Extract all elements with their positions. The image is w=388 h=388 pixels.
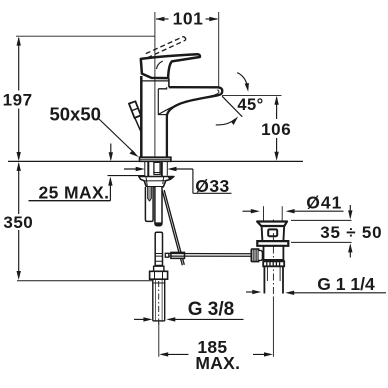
neck left edge bbox=[141, 78, 143, 84]
dimension 185 extension line left bbox=[158, 323, 160, 357]
pull rod guide bbox=[154, 162, 160, 172]
rod clamp bbox=[171, 252, 185, 258]
dimension O41 extension lines bbox=[263, 206, 265, 221]
drain lower nut band bbox=[263, 261, 284, 266]
counter underside line bbox=[108, 175, 145, 177]
countertop line bbox=[8, 160, 303, 162]
G 3/8 underline leader + arrows bbox=[134, 317, 244, 321]
dimension 106 line + arrows bbox=[274, 96, 278, 161]
G 1 1/4 underline leader + arrows bbox=[246, 290, 386, 295]
faucet handle raised dashed bbox=[146, 37, 186, 58]
svg-text:197: 197 bbox=[3, 91, 33, 110]
spout inner curve bbox=[159, 95, 216, 114]
rotation arc lower bbox=[216, 116, 238, 125]
hub inner curve bbox=[156, 61, 162, 69]
G38 pipe centerline bbox=[158, 281, 160, 327]
rotation arc upper bbox=[237, 73, 249, 92]
lower pipe collar bbox=[154, 266, 164, 271]
label O33 leader arrows bbox=[124, 167, 232, 194]
counter hole right edge bbox=[166, 162, 168, 176]
svg-text:Ø41: Ø41 bbox=[306, 192, 342, 212]
supply hose left bbox=[145, 187, 153, 221]
svg-text:G 3/8: G 3/8 bbox=[188, 299, 234, 320]
25 MAX underline bbox=[29, 200, 111, 202]
base flange bbox=[140, 157, 171, 161]
dimension 101 extension line left bbox=[154, 12, 156, 157]
svg-text:Ø33: Ø33 bbox=[195, 176, 230, 196]
column front shading line bbox=[157, 89, 159, 115]
faucet lever and hub bbox=[141, 54, 200, 78]
G38 pipe thread line bbox=[153, 282, 165, 284]
drain flange bbox=[257, 222, 287, 227]
horizontal rod end cap bbox=[165, 253, 169, 257]
drain knob cap bbox=[259, 250, 263, 260]
dimension 185 line + arrows bbox=[159, 352, 273, 356]
drain square hole bbox=[268, 229, 277, 236]
dimension 350 bottom extension line bbox=[17, 280, 153, 282]
spout body bbox=[167, 87, 222, 157]
supply hose left gray core bbox=[148, 187, 152, 201]
drain knurled knob bbox=[251, 249, 258, 262]
svg-text:G 1 1/4: G 1 1/4 bbox=[317, 274, 375, 294]
neck right edge bbox=[168, 78, 170, 87]
25 MAX leader up arrow bbox=[108, 177, 112, 201]
svg-text:25 MAX.: 25 MAX. bbox=[39, 183, 110, 203]
dimension 197 line + arrows bbox=[17, 37, 21, 161]
drain mid body bbox=[264, 246, 284, 261]
45 degree reference line bbox=[222, 96, 242, 117]
dimension 35-50 extension lines bbox=[291, 219, 352, 221]
svg-text:106: 106 bbox=[261, 120, 291, 139]
supply hose right bbox=[155, 187, 162, 226]
lower supply pipe bbox=[155, 232, 162, 271]
svg-text:101: 101 bbox=[173, 9, 204, 29]
dimension 101 line + arrows bbox=[155, 17, 218, 21]
svg-text:350: 350 bbox=[3, 213, 33, 232]
drain centerline bbox=[272, 220, 274, 298]
dimension 35-50 arrows bbox=[348, 205, 352, 258]
drain upper body bbox=[262, 226, 285, 241]
supply hose right end cap bbox=[155, 222, 162, 225]
dimension 106 extension line bbox=[222, 94, 282, 96]
dimension O41 line + arrows bbox=[243, 209, 344, 213]
threaded shank bbox=[148, 162, 162, 177]
faucet handle raised tip bbox=[184, 37, 186, 41]
faucet column left edge bbox=[140, 76, 143, 157]
spout notch tick bbox=[158, 114, 167, 116]
spout tip inner arc bbox=[215, 90, 219, 95]
counter hole left edge bbox=[144, 162, 146, 176]
dimension 101 extension line right bbox=[218, 12, 220, 88]
drain collar bbox=[257, 241, 288, 246]
spout ledge bbox=[158, 87, 166, 89]
wing nut details bbox=[144, 177, 166, 187]
base flange inner line bbox=[140, 158, 171, 160]
dimension 350 line + arrows bbox=[17, 162, 21, 280]
svg-text:45°: 45° bbox=[237, 96, 263, 114]
hub bottom step bbox=[142, 80, 169, 82]
lower pipe division lines bbox=[155, 254, 162, 266]
pop-up transfer rod bbox=[162, 190, 184, 265]
pop-up rod knob bbox=[129, 101, 141, 118]
horizontal pop-up rod bbox=[169, 254, 252, 257]
mounting wing nut bbox=[139, 177, 174, 187]
dimension 197 top extension line bbox=[16, 35, 155, 37]
G38 threaded pipe bbox=[153, 279, 165, 321]
leader 50x50 bbox=[99, 119, 139, 157]
drain tailpipe bbox=[264, 267, 283, 294]
dimension 185 extension line right bbox=[272, 297, 274, 357]
svg-text:50x50: 50x50 bbox=[49, 104, 100, 125]
25 MAX down arrow bbox=[109, 144, 113, 162]
G38 hex fitting bbox=[150, 271, 168, 279]
svg-text:35 ÷ 50: 35 ÷ 50 bbox=[320, 223, 382, 242]
svg-text:MAX.: MAX. bbox=[195, 353, 240, 373]
